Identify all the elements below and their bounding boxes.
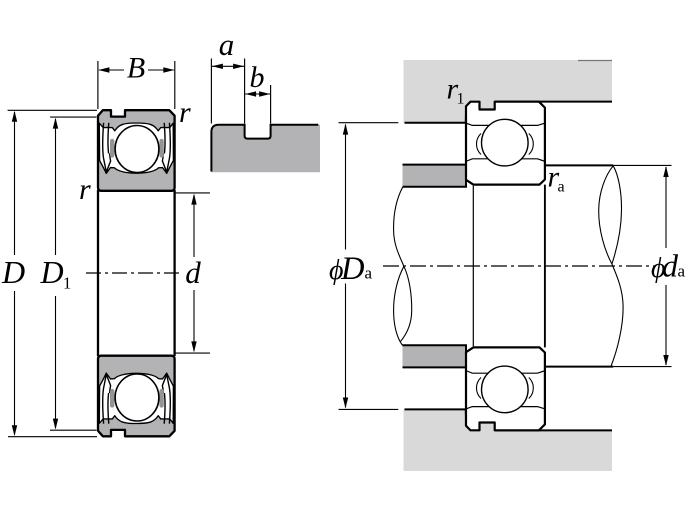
housing shoulder edges top [405, 106, 467, 122]
dimension b arrow line [245, 93, 270, 95]
svg-text:D: D [39, 254, 63, 290]
centerline right figure [383, 265, 656, 267]
shaft break right (S-curve) [611, 264, 623, 366]
dimension a arrow line [212, 65, 244, 67]
shaft surface bottom [545, 366, 613, 368]
phi da extension line top [613, 164, 671, 166]
bearing cross-section top half [98, 110, 175, 191]
svg-text:a: a [678, 262, 686, 281]
dimension d extension ticks [175, 192, 211, 194]
shaft shoulder face line right [544, 185, 546, 348]
raceway edge arc right [529, 134, 534, 155]
shaft shoulder block top [403, 165, 467, 187]
bore lines between sections [97, 190, 99, 356]
bearing cross-section bottom half (mirror) [98, 356, 175, 437]
shaft break left (S-curve) [394, 187, 404, 266]
phi Da extension line bottom [339, 408, 399, 410]
dimension B arrow line [99, 69, 124, 71]
shaft shoulder block bottom [403, 345, 467, 367]
dimension d line with arrows [193, 195, 195, 257]
centerline left figure [86, 272, 182, 274]
svg-text:d: d [662, 248, 679, 284]
svg-text:1: 1 [457, 91, 465, 108]
housing top block faint top edge [578, 60, 612, 62]
svg-text:D: D [340, 251, 364, 287]
dimension D1 line with arrows [55, 119, 57, 255]
shaft break left (lens) [394, 266, 404, 345]
detail block fill [211, 125, 320, 173]
dimension D line with arrows [14, 112, 16, 255]
dimension a extension lines [210, 59, 212, 124]
svg-text:a: a [365, 264, 373, 283]
dimension D bottom extension line [8, 436, 97, 438]
housing bottom block fill [404, 409, 613, 471]
shaft break right (lens) [599, 166, 614, 264]
phi Da extension line top [339, 122, 399, 124]
svg-text:B: B [127, 52, 145, 85]
housing shoulder edges bottom [405, 409, 467, 425]
dimension D1 extension line (top, at groove dia) [50, 116, 96, 118]
dimension b extension line [270, 85, 272, 124]
svg-text:1: 1 [63, 274, 71, 293]
svg-text:b: b [250, 61, 265, 94]
dimension D1 bottom extension line [50, 429, 97, 431]
shaft seat step line left [472, 186, 474, 347]
detail block outline [211, 125, 318, 172]
bearing (right figure) top [466, 102, 545, 185]
svg-text:D: D [1, 254, 25, 290]
svg-text:a: a [558, 179, 565, 196]
ball [482, 119, 529, 166]
phi da extension line bottom [613, 366, 671, 368]
svg-text:r: r [79, 173, 91, 206]
inner ring OD line [467, 159, 544, 161]
phi da dimension line [665, 167, 667, 248]
svg-text:a: a [219, 27, 235, 62]
housing top block fill [404, 60, 613, 123]
dimension B extension lines [97, 61, 99, 109]
housing bore edge bottom [495, 429, 612, 431]
dimension D extension line (top, at OD) [8, 109, 97, 111]
phi Da dimension line [345, 125, 347, 250]
bearing (right figure) bottom [466, 347, 545, 430]
svg-text:r: r [179, 96, 191, 129]
outer ring bore line [467, 123, 544, 125]
shaft surface top [545, 164, 613, 166]
raceway edge arc left [477, 134, 482, 155]
housing bore edge top [495, 101, 612, 103]
svg-text:d: d [185, 255, 201, 290]
